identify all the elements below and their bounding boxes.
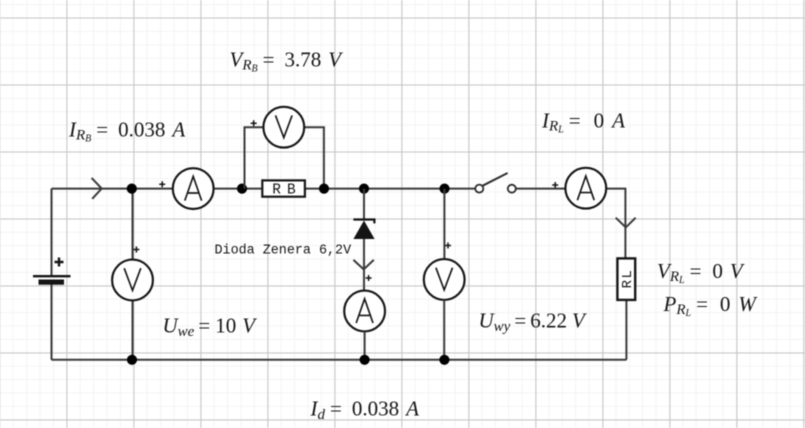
zener diode D1 cathode bar — [353, 220, 374, 224]
voltmeter V1 (U_we) — [112, 260, 153, 301]
ammeter A1 (I_RB) — [173, 168, 214, 209]
svg-text:IRB=0.038A: IRB=0.038A — [68, 118, 185, 145]
svg-text:RL: RL — [620, 269, 636, 289]
voltmeter V2 (V_RB) — [263, 107, 304, 148]
node C right of RB — [319, 184, 329, 194]
wire switch to A3 — [516, 188, 566, 190]
wire RL to bottom — [625, 300, 627, 360]
wire A3 to right corner — [606, 189, 625, 259]
svg-text:Uwe=10V: Uwe=10V — [163, 314, 258, 340]
current direction arrow on RL branch — [616, 218, 636, 228]
resistor RB — [262, 180, 305, 196]
svg-text:IRL=0A: IRL=0A — [541, 109, 625, 136]
ammeter A3 (I_RL) — [565, 168, 606, 209]
voltmeter V2 plus mark — [251, 120, 257, 126]
svg-text:RB: RB — [272, 183, 301, 199]
svg-text:PRL=0W: PRL=0W — [663, 292, 759, 319]
svg-text:VRB=3.78V: VRB=3.78V — [230, 48, 344, 75]
wire V3 branch upper — [443, 189, 445, 260]
wire V1 branch lower — [132, 300, 134, 359]
node A top of V1 branch — [127, 184, 137, 194]
zener diode D1 anode triangle — [353, 221, 374, 240]
ammeter A1 plus mark — [159, 181, 165, 187]
wire top-left horizontal — [52, 188, 173, 190]
resistor RL — [617, 258, 635, 300]
node bottom of zener branch — [360, 355, 370, 365]
wire bottom rail — [52, 359, 627, 361]
wire V3 branch lower — [443, 300, 445, 360]
wire zener top lead — [363, 189, 365, 220]
wire battery bottom lead — [51, 284, 53, 359]
wire RB to switch — [305, 188, 476, 190]
svg-text:VRL=0V: VRL=0V — [657, 259, 745, 286]
wire A2 to bottom — [364, 332, 366, 360]
switch S1 lever (open) — [483, 173, 508, 186]
voltmeter V1 plus mark — [133, 247, 139, 253]
switch S1 left contact — [475, 185, 483, 193]
svg-text:Dioda Zenera 6,2V: Dioda Zenera 6,2V — [215, 243, 352, 258]
ammeter A2 plus mark — [366, 275, 372, 281]
wire voltmeter V2 left lead — [245, 127, 264, 188]
current direction arrow into node A — [92, 178, 102, 199]
ammeter A3 plus mark — [552, 182, 558, 188]
switch S1 right contact — [508, 185, 516, 193]
svg-text:Uwy=6.22V: Uwy=6.22V — [479, 309, 587, 335]
wire V1 branch upper — [132, 189, 134, 260]
voltmeter V3 plus mark — [445, 243, 451, 249]
wire A1 to RB — [214, 188, 263, 190]
node B left of RB — [237, 184, 247, 194]
battery BT1 positive plate — [33, 275, 71, 277]
wire voltmeter V2 right lead — [304, 127, 324, 188]
node bottom of V3 branch — [439, 355, 449, 365]
node bottom of V1 branch — [127, 355, 137, 365]
wire battery top lead — [51, 189, 53, 276]
battery BT1 negative plate — [39, 280, 65, 285]
voltmeter V3 (U_wy) — [424, 259, 465, 300]
wire zener to A2 — [363, 239, 365, 291]
current direction arrow on zener branch — [353, 260, 373, 270]
node D zener branch top — [359, 184, 369, 194]
battery BT1 plus polarity mark — [55, 258, 64, 267]
svg-text:Id=0.038A: Id=0.038A — [310, 397, 420, 423]
ammeter A2 (I_d) — [344, 291, 385, 332]
node E top of V3 branch — [439, 184, 449, 194]
